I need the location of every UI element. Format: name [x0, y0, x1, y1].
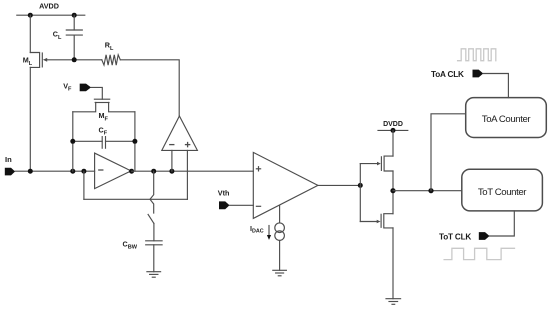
- capacitor C_F: [73, 137, 135, 149]
- node: In / feedback left rail: [70, 169, 75, 174]
- capacitor C_BW: [146, 241, 162, 272]
- wire: output row to ToT Counter: [393, 190, 462, 192]
- svg-text:CL: CL: [53, 30, 62, 41]
- svg-text:VF: VF: [63, 81, 72, 92]
- DVDD rail: [378, 129, 408, 131]
- switch S1: [148, 171, 154, 241]
- block ToA Counter: [466, 98, 547, 138]
- wire: bottom feedback branch down: [83, 171, 85, 199]
- wire: M_L source from AVDD: [29, 15, 31, 52]
- svg-text:In: In: [5, 155, 12, 164]
- node: In / bottom feedback branch: [81, 169, 86, 174]
- node: inverter input: [358, 183, 363, 188]
- wire: M_L gate to R_L node: [47, 59, 102, 61]
- svg-text:ToA Counter: ToA Counter: [482, 114, 532, 125]
- svg-text:IDAC: IDAC: [250, 224, 264, 235]
- svg-text:Vth: Vth: [218, 189, 230, 198]
- transistor MP (inverter pull-up): [360, 156, 393, 171]
- wire: feedback left rail: [72, 112, 74, 171]
- AVDD rail: [17, 14, 85, 16]
- svg-text:ToT Counter: ToT Counter: [478, 187, 527, 198]
- svg-text:DVDD: DVDD: [383, 121, 403, 128]
- port ToA CLK pad: [473, 70, 484, 78]
- transistor M_L: [30, 53, 47, 68]
- wire: NMOS drain to output node: [392, 191, 394, 214]
- wire: PMOS source from DVDD: [392, 130, 394, 156]
- block ToT Counter: [462, 169, 543, 211]
- op-amp A2 (buffer, output at apex): [162, 116, 198, 150]
- wire: A1 output row to comparator: [132, 170, 254, 172]
- ground (inverter): [386, 299, 401, 305]
- node: DVDD: [391, 128, 396, 133]
- svg-text:RL: RL: [105, 41, 114, 52]
- wire: PMOS drain to output node: [392, 171, 394, 191]
- op-amp A1 (core amplifier): [95, 153, 131, 189]
- wire: V_F to M_F gate: [91, 87, 102, 99]
- ground (C_BW): [147, 272, 161, 278]
- node: A1 output: [129, 169, 134, 174]
- node: buffer inverting input branch: [169, 169, 174, 174]
- wire: feedback right rail: [134, 112, 136, 171]
- wire: feedback up to buffer non-inverting input: [186, 150, 188, 199]
- wire: buffer inverting input stub: [171, 150, 173, 171]
- wire: branch up to ToA Counter: [431, 114, 466, 191]
- node: C_F right junction: [132, 139, 137, 144]
- transistor MN (inverter pull-down): [360, 214, 393, 228]
- comparator U1: [253, 152, 318, 218]
- ground (I_DAC): [273, 270, 287, 276]
- capacitor C_L: [66, 15, 82, 60]
- svg-text:ToA CLK: ToA CLK: [431, 70, 464, 79]
- A1 inverting input sign: [99, 169, 103, 171]
- svg-text:CBW: CBW: [123, 239, 138, 250]
- node: AVDD / M_L source junction: [28, 13, 33, 18]
- node: inverter output: [390, 188, 395, 193]
- ToT clock waveform: [444, 248, 514, 259]
- transistor M_F: [73, 99, 135, 112]
- wire: ToT CLK to counter: [490, 211, 515, 236]
- U1 non-inverting sign: [256, 167, 260, 171]
- wire: comparator output to inverter input bus: [318, 184, 360, 186]
- wire: R_L to buffer output column: [120, 60, 179, 116]
- port In pad: [5, 168, 15, 176]
- A2 non-inverting sign: [186, 143, 190, 147]
- node: C_L bottom / gate / R_L junction: [72, 57, 77, 62]
- wire: input row: [15, 170, 95, 172]
- U1 inverting sign: [256, 205, 260, 207]
- I_DAC arrow: [267, 226, 271, 240]
- svg-text:ToT CLK: ToT CLK: [439, 233, 471, 242]
- svg-text:AVDD: AVDD: [39, 2, 59, 11]
- node: ToA branch: [428, 188, 433, 193]
- wire: inverter gate bus: [359, 164, 361, 222]
- svg-text:CF: CF: [99, 126, 108, 137]
- node: C_F left junction: [70, 139, 75, 144]
- node: In / M_L drain: [28, 169, 33, 174]
- svg-text:MF: MF: [99, 111, 109, 122]
- node: switch branch: [151, 169, 156, 174]
- svg-text:ML: ML: [23, 56, 33, 67]
- wire: NMOS source to ground: [392, 228, 394, 299]
- resistor R_L: [102, 55, 121, 65]
- node: AVDD / C_L top junction: [72, 13, 77, 18]
- port Vth pad: [219, 201, 230, 209]
- wire: comparator bias tap: [279, 205, 281, 223]
- A2 inverting sign: [170, 144, 174, 146]
- port ToT CLK pad: [479, 232, 490, 240]
- wire: I_DAC to ground: [279, 240, 281, 270]
- wire: M_L drain down to input node: [29, 67, 31, 171]
- wire: Vth to comparator inverting input: [230, 204, 254, 206]
- wire: bottom feedback run: [84, 198, 187, 200]
- port V_F pad: [80, 84, 91, 92]
- wire: ToA CLK to counter: [483, 74, 508, 98]
- current source I_DAC: [275, 223, 285, 241]
- ToA clock waveform: [458, 49, 496, 61]
